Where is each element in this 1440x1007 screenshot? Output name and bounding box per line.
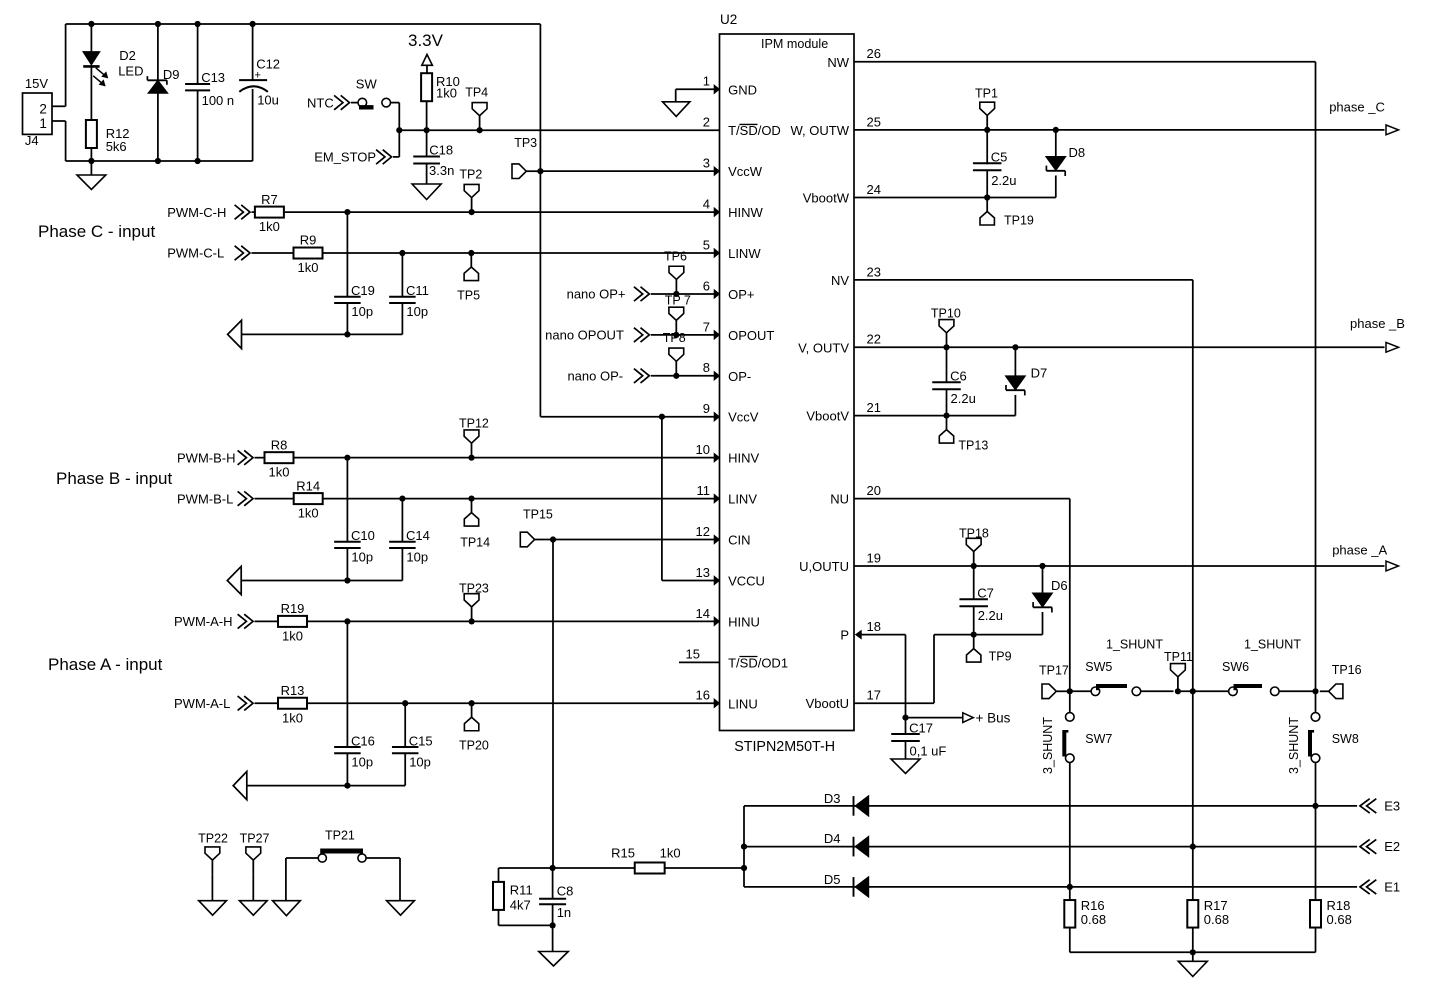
svg-text:1k0: 1k0 — [282, 710, 303, 725]
svg-text:VccV: VccV — [728, 410, 759, 425]
svg-text:TP10: TP10 — [931, 307, 961, 321]
svg-text:TP16: TP16 — [1332, 663, 1362, 677]
svg-text:R17: R17 — [1204, 898, 1228, 913]
svg-text:Phase A - input: Phase A - input — [48, 655, 163, 674]
svg-text:R9: R9 — [300, 233, 317, 248]
svg-text:phase _C: phase _C — [1329, 100, 1385, 115]
svg-text:LINW: LINW — [728, 246, 761, 261]
svg-text:D9: D9 — [163, 67, 180, 82]
svg-text:1k0: 1k0 — [282, 628, 303, 643]
svg-text:HINV: HINV — [728, 451, 759, 466]
svg-text:10u: 10u — [257, 93, 279, 108]
svg-text:C5: C5 — [991, 149, 1008, 164]
svg-text:U2: U2 — [720, 12, 737, 27]
svg-text:T/SD/OD: T/SD/OD — [728, 123, 781, 138]
svg-text:2.2u: 2.2u — [951, 391, 976, 406]
svg-text:C6: C6 — [950, 368, 967, 383]
svg-text:OP-: OP- — [728, 369, 751, 384]
svg-text:TP6: TP6 — [664, 250, 687, 264]
svg-text:nano OP+: nano OP+ — [567, 287, 626, 302]
svg-text:TP14: TP14 — [460, 536, 490, 550]
svg-text:21: 21 — [867, 400, 881, 415]
svg-text:10p: 10p — [406, 550, 428, 565]
svg-text:TP8: TP8 — [663, 331, 686, 345]
svg-text:PWM-C-L: PWM-C-L — [167, 246, 224, 261]
svg-text:SW: SW — [356, 77, 378, 92]
svg-text:C17: C17 — [909, 720, 933, 735]
svg-text:R13: R13 — [281, 683, 305, 698]
svg-text:Phase C - input: Phase C - input — [38, 222, 155, 241]
svg-text:TP15: TP15 — [523, 508, 553, 522]
svg-text:22: 22 — [867, 332, 881, 347]
svg-text:PWM-A-H: PWM-A-H — [174, 614, 233, 629]
svg-text:2.2u: 2.2u — [991, 173, 1016, 188]
svg-text:VbootV: VbootV — [806, 409, 849, 424]
svg-text:24: 24 — [867, 182, 881, 197]
svg-text:phase _A: phase _A — [1332, 542, 1387, 557]
svg-text:3: 3 — [703, 156, 710, 171]
svg-text:PWM-C-H: PWM-C-H — [167, 205, 226, 220]
svg-text:R16: R16 — [1081, 898, 1105, 913]
svg-text:SW5: SW5 — [1085, 660, 1112, 674]
svg-text:E3: E3 — [1384, 798, 1400, 813]
svg-text:7: 7 — [703, 319, 710, 334]
svg-text:PWM-B-L: PWM-B-L — [177, 491, 233, 506]
svg-text:TP5: TP5 — [457, 289, 480, 303]
svg-text:TP21: TP21 — [325, 828, 355, 842]
svg-text:TP12: TP12 — [459, 417, 489, 431]
svg-text:Phase B - input: Phase B - input — [56, 469, 173, 488]
svg-text:R19: R19 — [281, 601, 305, 616]
svg-text:13: 13 — [696, 565, 710, 580]
svg-text:16: 16 — [696, 688, 710, 703]
svg-text:3_SHUNT: 3_SHUNT — [1041, 717, 1055, 774]
svg-text:PWM-B-H: PWM-B-H — [177, 450, 236, 465]
svg-text:1k0: 1k0 — [298, 506, 319, 521]
svg-text:HINU: HINU — [728, 614, 760, 629]
svg-text:TP19: TP19 — [1004, 214, 1034, 228]
svg-text:1k0: 1k0 — [269, 465, 290, 480]
svg-text:nano OPOUT: nano OPOUT — [545, 328, 624, 343]
svg-text:R7: R7 — [261, 192, 278, 207]
svg-text:PWM-A-L: PWM-A-L — [174, 696, 230, 711]
svg-text:HINW: HINW — [728, 205, 763, 220]
svg-text:D3: D3 — [824, 791, 841, 806]
svg-text:GND: GND — [728, 82, 757, 97]
svg-text:1k0: 1k0 — [660, 845, 681, 860]
svg-text:TP13: TP13 — [958, 439, 988, 453]
svg-text:6: 6 — [703, 278, 710, 293]
svg-text:R18: R18 — [1327, 898, 1351, 913]
svg-text:3.3V: 3.3V — [408, 31, 444, 50]
svg-text:TP20: TP20 — [459, 739, 489, 753]
svg-text:+ Bus: + Bus — [976, 710, 1011, 725]
svg-text:VCCU: VCCU — [728, 573, 765, 588]
svg-text:NU: NU — [830, 492, 849, 507]
svg-text:1: 1 — [703, 74, 710, 89]
svg-text:2: 2 — [703, 115, 710, 130]
svg-text:TP 7: TP 7 — [665, 294, 691, 308]
svg-text:3_SHUNT: 3_SHUNT — [1287, 717, 1301, 774]
svg-text:NW: NW — [827, 55, 849, 70]
svg-text:NTC: NTC — [307, 95, 334, 110]
svg-text:E1: E1 — [1384, 879, 1400, 894]
svg-text:15: 15 — [686, 647, 700, 662]
svg-text:2.2u: 2.2u — [978, 608, 1003, 623]
svg-text:4: 4 — [703, 196, 710, 211]
svg-text:D2: D2 — [119, 48, 136, 63]
svg-text:R14: R14 — [296, 478, 320, 493]
svg-text:TP11: TP11 — [1164, 650, 1193, 664]
svg-text:NV: NV — [831, 273, 849, 288]
svg-text:CIN: CIN — [728, 533, 750, 548]
svg-text:10p: 10p — [351, 550, 373, 565]
svg-text:VbootU: VbootU — [806, 696, 849, 711]
svg-text:C10: C10 — [351, 528, 375, 543]
svg-text:D7: D7 — [1031, 365, 1048, 380]
svg-text:C7: C7 — [977, 585, 994, 600]
svg-text:VccW: VccW — [728, 164, 763, 179]
svg-text:9: 9 — [703, 401, 710, 416]
svg-text:R15: R15 — [611, 845, 635, 860]
svg-text:E2: E2 — [1384, 839, 1400, 854]
svg-text:SW7: SW7 — [1085, 732, 1112, 746]
svg-text:TP1: TP1 — [975, 87, 998, 101]
svg-text:D8: D8 — [1069, 145, 1086, 160]
svg-text:TP27: TP27 — [240, 831, 270, 845]
svg-text:+: + — [255, 70, 261, 82]
svg-text:C14: C14 — [406, 528, 430, 543]
svg-text:IPM module: IPM module — [761, 37, 828, 51]
svg-text:10: 10 — [696, 442, 710, 457]
svg-text:8: 8 — [703, 360, 710, 375]
svg-text:10p: 10p — [409, 755, 431, 770]
svg-text:18: 18 — [867, 619, 881, 634]
svg-text:TP3: TP3 — [514, 136, 537, 150]
svg-text:0,1 uF: 0,1 uF — [910, 743, 947, 758]
svg-text:14: 14 — [696, 606, 710, 621]
svg-text:3.3n: 3.3n — [429, 163, 454, 178]
svg-text:1k0: 1k0 — [298, 260, 319, 275]
svg-text:C13: C13 — [201, 70, 225, 85]
svg-text:0.68: 0.68 — [1081, 912, 1106, 927]
svg-text:OP+: OP+ — [728, 287, 754, 302]
svg-text:19: 19 — [867, 550, 881, 565]
svg-text:0.68: 0.68 — [1327, 912, 1352, 927]
svg-text:10p: 10p — [351, 755, 373, 770]
svg-text:23: 23 — [867, 264, 881, 279]
svg-text:U,OUTU: U,OUTU — [799, 559, 849, 574]
svg-text:17: 17 — [867, 688, 881, 703]
svg-text:phase _B: phase _B — [1350, 316, 1405, 331]
svg-text:1_SHUNT: 1_SHUNT — [1106, 638, 1163, 652]
svg-text:nano OP-: nano OP- — [567, 369, 623, 384]
svg-text:R11: R11 — [510, 883, 533, 898]
svg-text:STIPN2M50T-H: STIPN2M50T-H — [734, 739, 835, 755]
svg-text:TP4: TP4 — [465, 86, 488, 100]
svg-text:V, OUTV: V, OUTV — [798, 340, 849, 355]
svg-text:1_SHUNT: 1_SHUNT — [1244, 638, 1301, 652]
svg-text:10p: 10p — [351, 304, 373, 319]
svg-text:D4: D4 — [824, 831, 841, 846]
svg-text:C15: C15 — [409, 733, 433, 748]
svg-text:TP22: TP22 — [198, 831, 228, 845]
svg-text:11: 11 — [697, 483, 711, 498]
svg-text:D6: D6 — [1051, 578, 1068, 593]
svg-text:LED: LED — [118, 63, 143, 78]
svg-text:C18: C18 — [429, 143, 453, 158]
svg-text:LINV: LINV — [728, 492, 757, 507]
svg-text:5: 5 — [703, 237, 710, 252]
svg-text:W, OUTW: W, OUTW — [791, 123, 850, 138]
svg-text:C19: C19 — [351, 283, 375, 298]
svg-text:TP17: TP17 — [1039, 663, 1069, 677]
svg-text:5k6: 5k6 — [106, 139, 127, 154]
svg-text:0.68: 0.68 — [1204, 912, 1229, 927]
svg-text:100 n: 100 n — [202, 93, 235, 108]
svg-text:1: 1 — [39, 116, 47, 131]
svg-text:20: 20 — [867, 483, 881, 498]
svg-text:TP2: TP2 — [459, 168, 482, 182]
svg-text:J4: J4 — [25, 133, 39, 148]
svg-text:VbootW: VbootW — [803, 191, 850, 206]
svg-text:T/SD/OD1: T/SD/OD1 — [728, 655, 788, 670]
svg-text:2: 2 — [39, 101, 47, 116]
svg-text:C16: C16 — [351, 733, 375, 748]
svg-text:C8: C8 — [557, 884, 574, 899]
svg-text:12: 12 — [696, 524, 710, 539]
svg-text:1k0: 1k0 — [259, 219, 280, 234]
svg-text:SW8: SW8 — [1332, 732, 1359, 746]
svg-text:1k0: 1k0 — [436, 86, 457, 101]
svg-text:26: 26 — [867, 46, 881, 61]
svg-text:D5: D5 — [824, 872, 841, 887]
svg-text:C11: C11 — [406, 283, 429, 298]
svg-text:10p: 10p — [406, 304, 428, 319]
svg-text:R8: R8 — [271, 437, 288, 452]
svg-text:EM_STOP: EM_STOP — [314, 150, 376, 165]
svg-text:4k7: 4k7 — [510, 898, 531, 913]
svg-text:OPOUT: OPOUT — [728, 328, 774, 343]
svg-text:25: 25 — [867, 114, 881, 129]
svg-text:1n: 1n — [557, 905, 571, 920]
svg-text:LINU: LINU — [728, 696, 758, 711]
svg-text:15V: 15V — [25, 76, 48, 91]
svg-text:P: P — [840, 628, 849, 643]
svg-text:SW6: SW6 — [1222, 660, 1249, 674]
svg-text:TP9: TP9 — [989, 650, 1012, 664]
